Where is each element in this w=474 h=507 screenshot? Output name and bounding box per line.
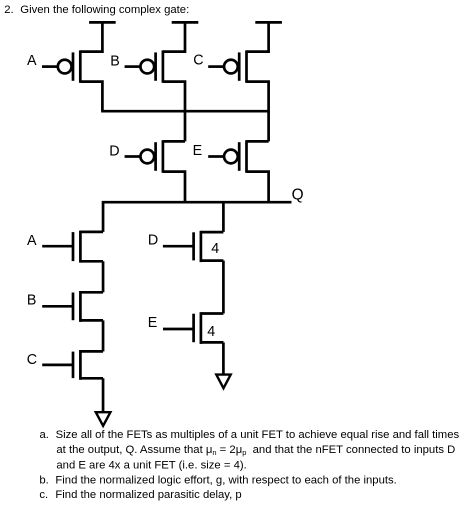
wire: rail joining pmos A,B,C drains	[101, 110, 268, 113]
pmos A: gate bar	[72, 52, 75, 80]
pmos D: channel bar	[162, 140, 165, 173]
VDD supply bar (above pmos B)	[172, 21, 199, 24]
pmos E: inversion bubble	[224, 150, 238, 164]
pmos C: source stub to VDD	[247, 22, 269, 51]
svg-text:D: D	[109, 144, 119, 160]
pmos E: channel bar	[245, 140, 248, 173]
svg-text:and E are 4x a unit FET (i.e.: and E are 4x a unit FET (i.e. size = 4).	[56, 459, 246, 471]
nmos C: drain stub	[80, 350, 103, 353]
svg-text:A: A	[27, 53, 37, 69]
svg-text:Q: Q	[292, 187, 304, 204]
svg-text:2.: 2.	[4, 4, 13, 16]
nmos B: source stub	[80, 319, 103, 322]
pmos A: channel bar	[79, 50, 82, 82]
pmos B: inversion bubble	[140, 60, 154, 74]
svg-text:D: D	[148, 233, 158, 249]
pmos C: gate bar	[238, 52, 241, 80]
svg-text:B: B	[110, 53, 120, 69]
nmos B: channel bar	[79, 291, 82, 322]
pmos C: channel bar	[245, 50, 248, 82]
nmos E: gate lead wire	[163, 328, 194, 331]
nmos A: drain stub	[80, 231, 103, 234]
pmos C: drain stub, wire through rail1 to pmos E source	[247, 82, 269, 142]
ground symbol (left branch)	[96, 412, 111, 426]
nmos D: channel bar	[200, 231, 203, 262]
pmos D: source stub	[163, 140, 185, 143]
svg-text:C: C	[193, 53, 203, 69]
pmos B: source stub to VDD	[163, 22, 185, 51]
svg-text:A: A	[27, 233, 37, 249]
VDD supply bar (above pmos A)	[89, 21, 116, 24]
nmos E: drain stub	[201, 312, 224, 315]
pmos E: drain stub down to output rail	[247, 172, 269, 203]
svg-text:E: E	[193, 143, 203, 159]
wire: nmos C source down to ground	[102, 378, 105, 411]
svg-text:b.: b.	[39, 474, 48, 486]
nmos C: source stub	[80, 377, 103, 380]
nmos D: drain stub	[201, 231, 224, 234]
svg-text:a.: a.	[40, 429, 49, 441]
pmos A: inversion bubble	[58, 60, 72, 74]
wire: nmos D source to nmos E drain	[222, 261, 225, 314]
pmos D: gate bar	[154, 142, 157, 171]
pmos E: gate bar	[238, 142, 241, 171]
nmos E: gate bar	[192, 314, 195, 343]
nmos C: channel bar	[79, 350, 82, 380]
pmos D: inversion bubble	[140, 150, 154, 164]
pmos B: gate lead wire	[125, 65, 141, 68]
wire: output rail Q with corner down to nmos A	[103, 202, 291, 232]
nmos D: source stub	[201, 259, 224, 262]
ground symbol (right branch)	[216, 375, 230, 389]
nmos B: gate bar	[72, 293, 75, 321]
svg-text:Find the normalized parasitic: Find the normalized parasitic delay, p	[55, 489, 241, 501]
svg-text:4: 4	[211, 241, 219, 257]
pmos B: drain stub, wire through rail1 to pmos D source	[163, 82, 185, 142]
nmos C: gate lead wire	[42, 364, 73, 367]
pmos A: source stub to VDD	[80, 22, 102, 51]
svg-text:B: B	[27, 293, 37, 309]
nmos D: gate lead wire	[163, 245, 194, 248]
pmos D: gate lead wire	[125, 155, 141, 158]
nmos A: source stub	[80, 260, 103, 263]
pmos C: inversion bubble	[224, 60, 238, 74]
wire: nmos E source down to ground	[222, 342, 225, 374]
svg-text:Given the following complex ga: Given the following complex gate:	[20, 4, 189, 16]
svg-text:4: 4	[207, 324, 215, 340]
svg-text:E: E	[148, 315, 158, 331]
wire: nmos A source to nmos B drain	[102, 261, 105, 292]
svg-text:c.: c.	[39, 489, 48, 501]
pmos B: gate bar	[154, 52, 157, 80]
svg-text:at the output, Q. Assume that: at the output, Q. Assume that μn = 2μp a…	[56, 444, 455, 457]
svg-text:Size all of the FETs as multip: Size all of the FETs as multiples of a u…	[56, 429, 460, 441]
nmos B: drain stub	[80, 291, 103, 294]
svg-text:C: C	[27, 352, 37, 368]
nmos B: gate lead wire	[42, 305, 73, 308]
nmos A: gate bar	[72, 232, 75, 261]
wire: nmos B source to nmos C drain	[102, 320, 105, 351]
VDD supply bar (above pmos C)	[255, 21, 282, 24]
nmos C: gate bar	[72, 352, 75, 379]
pmos C: gate lead wire	[208, 65, 224, 68]
pmos A: drain stub down to rail1	[80, 82, 102, 112]
question text	[39, 429, 459, 501]
pmos E: source stub	[247, 140, 269, 143]
svg-text:Find the normalized logic effo: Find the normalized logic effort, g, wit…	[55, 474, 396, 486]
nmos A: gate lead wire	[42, 245, 73, 248]
pmos B: channel bar	[162, 50, 165, 82]
nmos A: channel bar	[79, 231, 82, 263]
wire: tap from output rail down to nmos D	[222, 202, 225, 232]
pmos D: drain stub down to output rail	[163, 172, 185, 203]
nmos E: channel bar	[200, 312, 203, 344]
pmos A: gate lead wire	[42, 65, 58, 68]
nmos D: gate bar	[192, 232, 195, 260]
pmos E: gate lead wire	[208, 155, 224, 158]
nmos E: source stub	[201, 341, 224, 344]
